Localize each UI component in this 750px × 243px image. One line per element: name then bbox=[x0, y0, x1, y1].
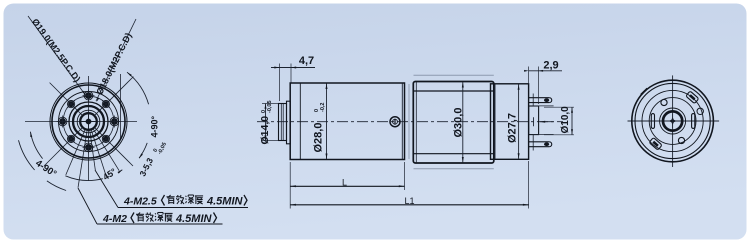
svg-text:4.5MIN: 4.5MIN bbox=[175, 213, 213, 225]
M2 holes on diagonals bbox=[102, 135, 109, 142]
note leader 2 bbox=[78, 188, 97, 224]
motor can outline bbox=[413, 82, 494, 164]
dim L bbox=[289, 162, 291, 209]
svg-text:4-M2.5: 4-M2.5 bbox=[123, 196, 157, 208]
terminal tab bottom bbox=[529, 141, 550, 143]
svg-text:-0,05: -0,05 bbox=[267, 100, 273, 113]
rear notch NW bbox=[641, 88, 647, 94]
M2.5 holes on axes bbox=[110, 117, 119, 126]
svg-text:L: L bbox=[342, 177, 347, 187]
dim Ø10 bbox=[544, 106, 574, 108]
svg-text:Ø10,0: Ø10,0 bbox=[560, 106, 571, 134]
svg-text:4-M2: 4-M2 bbox=[102, 213, 127, 225]
svg-text:Ø27,7: Ø27,7 bbox=[507, 113, 519, 143]
gearbox front outer circle bbox=[50, 83, 127, 160]
svg-text:4,7: 4,7 bbox=[299, 55, 314, 67]
gearbox body bbox=[290, 83, 404, 160]
can crimp lines bbox=[413, 90, 494, 92]
rear slot SW bbox=[649, 138, 662, 151]
note leader 1 bbox=[95, 170, 118, 208]
end cap bbox=[491, 84, 529, 160]
dim Ø30 bbox=[462, 82, 464, 163]
gearbox front plate line bbox=[299, 83, 301, 160]
rear small hole E bbox=[697, 108, 703, 114]
gearbox screw head bbox=[390, 117, 400, 127]
side view centerline bbox=[257, 121, 563, 123]
label leader Ø18 bbox=[96, 19, 136, 101]
dim Ø28 bbox=[326, 84, 328, 160]
dim Ø27,7 bbox=[518, 84, 520, 159]
rear bearing boss bbox=[529, 106, 539, 135]
angle dimension arc r62.5 bbox=[127, 72, 149, 104]
front plate circle bbox=[59, 92, 119, 152]
svg-text:Ø30,0: Ø30,0 bbox=[453, 108, 465, 138]
dim L1 bbox=[528, 161, 530, 209]
rear view crosshair bbox=[628, 120, 720, 122]
can faint silhouette lines bbox=[414, 74, 494, 76]
front view fan lines to slots bbox=[93, 129, 119, 171]
rear center star bbox=[669, 117, 677, 125]
front view vertical extension line bbox=[120, 74, 122, 140]
gearbox inner right edge bbox=[401, 84, 403, 160]
rear hub circle bbox=[649, 98, 696, 145]
note1 underline bbox=[118, 207, 248, 209]
boss circles bbox=[69, 102, 108, 141]
front view diagonal lines bbox=[94, 77, 133, 116]
svg-text:Ø14,0: Ø14,0 bbox=[259, 116, 271, 145]
svg-text:-0,2: -0,2 bbox=[320, 103, 326, 112]
svg-text:Ø28,0: Ø28,0 bbox=[313, 123, 325, 153]
rear bolt circle bbox=[642, 90, 703, 151]
angle dimension arc r59 bbox=[119, 170, 122, 172]
rear outer circle bbox=[632, 80, 714, 162]
svg-text:4-90°: 4-90° bbox=[150, 115, 160, 137]
center cross bbox=[86, 119, 91, 124]
label leader Ø19 bbox=[28, 16, 85, 95]
note2 underline bbox=[97, 223, 223, 225]
svg-text:L1: L1 bbox=[404, 196, 414, 206]
dim 4,7 bbox=[279, 64, 281, 102]
shaft bushing dark ring bbox=[80, 113, 97, 130]
rear boss center tick bbox=[533, 117, 535, 126]
dim Ø14,0 bbox=[262, 103, 278, 105]
svg-text:2,9: 2,9 bbox=[543, 60, 558, 72]
angle dimension arc r72.5 bbox=[47, 181, 66, 191]
front view crosshair centerlines bbox=[25, 121, 137, 123]
terminal tab top bbox=[529, 97, 550, 99]
svg-text:4.5MIN: 4.5MIN bbox=[206, 196, 244, 208]
joint faint line bbox=[408, 84, 410, 159]
rear slot NE bbox=[686, 91, 699, 104]
rear brush slots W/E bbox=[651, 114, 654, 129]
rear screw holes bbox=[661, 99, 667, 105]
rear bearing ring bbox=[663, 111, 682, 130]
brush card edges bbox=[533, 105, 553, 107]
shaft boss bbox=[279, 104, 287, 141]
boss flange bbox=[287, 101, 291, 144]
PCD circle bbox=[63, 96, 114, 147]
dim 2,9 bbox=[528, 67, 530, 85]
